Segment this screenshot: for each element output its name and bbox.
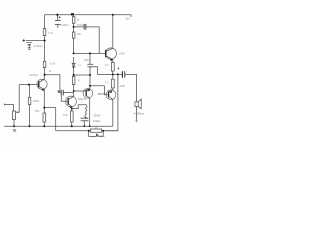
T4 emitter to ground bbox=[86, 96, 90, 127]
svg-text:2sc945: 2sc945 bbox=[29, 73, 38, 77]
capacitor C7 plates vertical bbox=[97, 134, 98, 137]
wire battery tap bbox=[26, 40, 45, 42]
T4 base wire bbox=[75, 90, 86, 92]
bootstrap link to output node bbox=[90, 67, 113, 75]
battery B1 plus sign bbox=[23, 39, 26, 42]
T2 base bar bbox=[67, 98, 69, 105]
svg-text:BC557: BC557 bbox=[98, 93, 106, 96]
C1 plus sign bbox=[59, 16, 61, 18]
feedback cap U-drop bbox=[89, 131, 104, 137]
wire cap to speaker bbox=[125, 74, 137, 102]
resistor R7 150 T2 emitter bbox=[70, 111, 73, 122]
capacitor C1 1000u supply filter bbox=[56, 15, 58, 21]
svg-text:1k: 1k bbox=[76, 18, 79, 22]
svg-text:-0dB: -0dB bbox=[119, 84, 125, 88]
wire 470n branch bbox=[74, 26, 84, 28]
potentiometer VR1 10k bbox=[13, 111, 16, 120]
wire input bbox=[5, 105, 14, 112]
resistor R4 1k bbox=[72, 17, 75, 24]
svg-text:470nF: 470nF bbox=[77, 23, 85, 27]
svg-text:4.7k: 4.7k bbox=[48, 31, 54, 35]
svg-text:100uF: 100uF bbox=[93, 114, 101, 118]
T4 emitter arrow (PNP) bbox=[86, 89, 90, 92]
wire T4 base bbox=[74, 90, 75, 92]
resistor R6 4.7k bbox=[72, 76, 75, 84]
svg-text:1000u: 1000u bbox=[61, 23, 69, 27]
wire divider column from rail bbox=[73, 15, 75, 96]
feedback resistor R10 horizontal bbox=[90, 129, 101, 132]
T5 base bar bbox=[108, 92, 110, 98]
T2 emitter lead + arrow bbox=[68, 104, 72, 111]
svg-text:10k: 10k bbox=[77, 32, 82, 36]
ground below battery bbox=[28, 47, 31, 49]
output capacitor C6 plates bbox=[121, 71, 123, 78]
T4 base bar bbox=[85, 90, 87, 96]
speaker ground arrow bbox=[136, 119, 138, 121]
svg-text:47: 47 bbox=[78, 78, 81, 82]
wire T1 emitter to feedback bbox=[44, 108, 55, 131]
wire left column bbox=[44, 15, 46, 75]
C4 plus sign bbox=[57, 90, 59, 92]
transistor T4 circle bbox=[83, 89, 93, 99]
svg-text:220u: 220u bbox=[99, 134, 105, 138]
wire top rail bbox=[45, 15, 131, 17]
resistor R9 3.3 lower bbox=[111, 79, 114, 88]
T5 base wire from T4 node bbox=[90, 86, 109, 95]
ground bar below pot bbox=[13, 129, 16, 131]
svg-text:BD139: BD139 bbox=[78, 97, 87, 101]
transistor T2 circle bbox=[66, 96, 77, 107]
T3 collector lead bbox=[106, 15, 113, 52]
svg-text:560: 560 bbox=[35, 109, 40, 113]
orange segment bbox=[73, 86, 75, 89]
T3 base bar bbox=[105, 50, 107, 57]
output node wire and feedback tap bbox=[113, 73, 122, 75]
T1 collector lead bbox=[39, 75, 45, 83]
transistor T3 circle bbox=[105, 48, 116, 59]
svg-text:3.3: 3.3 bbox=[105, 63, 109, 67]
svg-text:4.7: 4.7 bbox=[77, 63, 81, 67]
svg-text:4.5Vdc: 4.5Vdc bbox=[34, 44, 43, 48]
transistor T5 circle bbox=[106, 90, 116, 100]
C5 plus bbox=[85, 117, 87, 119]
svg-text:4 Ohm: 4 Ohm bbox=[134, 111, 144, 115]
transistor T1 circle bbox=[37, 79, 47, 89]
T1 base bar bbox=[38, 81, 40, 87]
T1 emitter lead + arrow bbox=[39, 86, 45, 107]
svg-text:100k: 100k bbox=[33, 99, 39, 103]
wire cap to T2 base bbox=[61, 95, 68, 101]
svg-text:150: 150 bbox=[63, 113, 68, 117]
svg-text:4u: 4u bbox=[49, 70, 52, 73]
wire collector branch to coupling cap bbox=[45, 75, 60, 93]
wiper arrowhead bbox=[16, 111, 18, 113]
diode D1 bbox=[72, 63, 75, 66]
T2 collector lead bbox=[68, 96, 73, 99]
T4 top pin from bootstrap node bbox=[86, 75, 90, 91]
capacitor C5 bypass plates bbox=[81, 117, 89, 119]
wire diode bottom to 47 ohm node bbox=[74, 74, 90, 76]
resistor R2 8.2k collector load bbox=[43, 61, 46, 67]
T5 emitter arrow (PNP up) bbox=[109, 90, 113, 93]
svg-text:c945: c945 bbox=[119, 51, 125, 55]
svg-text:3.3: 3.3 bbox=[105, 81, 109, 85]
wiper wire to T1 base bbox=[16, 85, 19, 113]
resistor R1 100k base bias bbox=[29, 85, 31, 127]
svg-text:12v: 12v bbox=[125, 17, 130, 21]
resistor R2a 4.7k bbox=[43, 29, 46, 36]
wire bypass branch bbox=[72, 105, 87, 109]
svg-text:3.0mv: 3.0mv bbox=[93, 119, 101, 123]
bottom rail bbox=[4, 125, 113, 127]
T5 collector down bbox=[109, 97, 113, 127]
resistor R3 560 emitter bbox=[43, 108, 45, 113]
capacitor C3 100n bootstrap column bbox=[89, 53, 91, 64]
resistor R8 3.3 upper bbox=[111, 62, 114, 71]
resistor R5 10k bbox=[72, 32, 75, 38]
junction dots bbox=[13, 13, 119, 132]
capacitor C2 470nF plates bbox=[84, 24, 86, 30]
wire base node bbox=[19, 84, 38, 86]
speaker LS1 bbox=[135, 102, 138, 107]
svg-text:100n: 100n bbox=[84, 58, 90, 62]
lower feedback wire bbox=[56, 130, 118, 132]
labels bbox=[29, 17, 144, 138]
coupling capacitor C4 10u plates bbox=[61, 90, 63, 96]
wire T3 base line bbox=[74, 52, 106, 54]
svg-text:8.2k: 8.2k bbox=[50, 61, 56, 65]
battery B1 cell plates bbox=[26, 42, 32, 44]
T3 emitter lead + arrow bbox=[106, 56, 113, 63]
C6 plus bbox=[117, 68, 119, 70]
